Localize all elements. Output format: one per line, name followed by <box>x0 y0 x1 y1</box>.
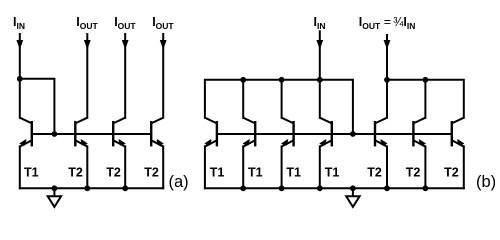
junction dot ground rail e1 (b) <box>240 185 246 191</box>
current arrow I_OUT (b) <box>384 40 391 50</box>
wire T2a emitter (a) <box>86 146 88 188</box>
svg-text:IIN: IIN <box>314 15 326 31</box>
junction dot output rail 2 (b) <box>423 77 429 83</box>
svg-text:IOUT: IOUT <box>76 15 98 31</box>
svg-text:T2: T2 <box>444 166 459 180</box>
wire I_OUT3 collector column (a) <box>162 34 164 118</box>
wire I_OUT2 collector column (a) <box>124 34 126 118</box>
wire T1d emitter (b) <box>319 146 321 188</box>
svg-text:T1: T1 <box>210 166 225 180</box>
wire T1b collector stub (b) <box>242 80 244 118</box>
transistor T1 fourth (b) <box>320 118 332 147</box>
transistor T2 second (b) <box>413 118 425 147</box>
transistor T1 (a) <box>20 118 32 147</box>
wire T2b emitter (b) <box>424 146 426 188</box>
junction dot ground rail left (a) <box>52 185 58 191</box>
junction dot ground rail e6 (b) <box>423 185 429 191</box>
svg-text:T2: T2 <box>406 166 421 180</box>
wire emitter ground rail (a) <box>20 187 163 189</box>
svg-text:T2: T2 <box>106 166 121 180</box>
wire T1c emitter (b) <box>281 146 283 188</box>
wire T1b emitter (b) <box>242 146 244 188</box>
wire I_IN vertical (a) <box>19 34 21 118</box>
junction dot ground rail e2 (b) <box>279 185 285 191</box>
transistor T1 third (b) <box>282 118 294 147</box>
junction dot ground rail e5 (b) <box>384 185 390 191</box>
svg-text:T1: T1 <box>248 166 263 180</box>
svg-text:IOUT = ¾IIN: IOUT = ¾IIN <box>359 15 416 31</box>
junction dot ground rail e3 (b) <box>317 185 323 191</box>
junction dot ground rail mid (a) <box>84 185 90 191</box>
wire common base rail (b) <box>217 133 452 135</box>
wire emitter ground rail (b) <box>205 187 464 189</box>
transistor T1 first (b) <box>205 118 217 147</box>
junction dot collector rail 2 (b) <box>279 77 285 83</box>
wire T2a emitter (b) <box>386 146 388 188</box>
svg-text:IOUT: IOUT <box>114 15 136 31</box>
wire input collector rail with tie-down (b) <box>205 80 353 134</box>
transistor T2 third (a) <box>151 118 163 147</box>
transistor T1 second (b) <box>243 118 255 147</box>
junction dot input node (a) <box>17 76 23 82</box>
transistor T2 first (a) <box>75 118 87 147</box>
current arrow I_OUT3 (a) <box>160 40 167 50</box>
wire I_IN vertical (b) <box>319 31 321 118</box>
wire I_OUT1 collector column (a) <box>86 34 88 118</box>
wire T2c emitter (a) <box>162 146 164 188</box>
svg-text:T1: T1 <box>325 166 340 180</box>
current arrow I_IN (b) <box>316 40 323 50</box>
svg-text:(b): (b) <box>476 173 496 191</box>
junction dot base rail (a) <box>52 131 58 137</box>
current arrow I_OUT1 (a) <box>84 40 91 50</box>
transistor T2 second (a) <box>113 118 125 147</box>
junction dot base rail (b) <box>350 131 356 137</box>
wire T2b collector stub (b) <box>424 80 426 118</box>
current arrow I_OUT2 (a) <box>122 40 129 50</box>
svg-text:T2: T2 <box>367 166 382 180</box>
wire T2b emitter (a) <box>124 146 126 188</box>
wire T1 emitter (a) <box>19 146 21 188</box>
svg-text:IOUT: IOUT <box>152 15 174 31</box>
wire output collector rail (b) <box>387 80 464 118</box>
wire T2c emitter (b) <box>463 146 465 188</box>
svg-text:T2: T2 <box>144 166 159 180</box>
junction dot ground rail gnd (b) <box>350 185 356 191</box>
svg-text:(a): (a) <box>169 173 189 191</box>
current arrow I_IN (a) <box>16 40 23 50</box>
ground (b) <box>346 188 359 207</box>
wire T1c collector stub (b) <box>281 80 283 118</box>
svg-text:T1: T1 <box>24 166 39 180</box>
transistor T2 third (b) <box>452 118 464 147</box>
svg-text:T1: T1 <box>286 166 301 180</box>
svg-text:IIN: IIN <box>13 15 25 31</box>
wire I_OUT vertical + T2a collector (b) <box>386 35 388 118</box>
junction dot ground rail right (a) <box>122 185 128 191</box>
wire base branch + tie-down (a) <box>20 79 55 134</box>
transistor T2 first (b) <box>375 118 387 147</box>
junction dot output rail 1 (b) <box>384 77 390 83</box>
junction dot collector rail 1 (b) <box>240 77 246 83</box>
wire common base rail (a) <box>32 133 151 135</box>
wire T1a emitter (b) <box>204 146 206 188</box>
svg-text:T2: T2 <box>68 166 83 180</box>
junction dot collector rail 3 / input (b) <box>317 77 323 83</box>
ground (a) <box>48 188 61 207</box>
